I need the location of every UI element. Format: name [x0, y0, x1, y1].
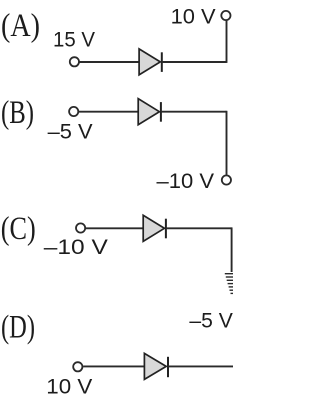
wire B anode [79, 111, 139, 113]
rail hatch -5V [225, 274, 233, 294]
diode D_A cathode bar [161, 52, 163, 72]
svg-text:–5 V: –5 V [48, 120, 94, 144]
wire C anode [86, 227, 144, 229]
svg-text:(B): (B) [1, 95, 34, 131]
wire B cathode [161, 111, 227, 113]
diode D_A triangle [139, 49, 160, 75]
diode D_D triangle [144, 353, 166, 379]
svg-text:–10 V: –10 V [157, 169, 215, 193]
diode D_B triangle [138, 99, 159, 125]
wire B vertical [226, 111, 228, 175]
wire A vertical [226, 21, 228, 63]
diode D_D cathode bar [167, 357, 169, 377]
diode D_C cathode bar [165, 219, 167, 239]
wire C vertical [231, 227, 233, 272]
svg-text:(D): (D) [1, 309, 35, 345]
terminal A input [70, 57, 79, 66]
svg-text:(A): (A) [1, 8, 40, 44]
terminal B -10V [222, 175, 231, 184]
svg-text:15 V: 15 V [53, 28, 96, 52]
diode D_B cathode bar [160, 102, 162, 122]
terminal A 10V [221, 11, 230, 20]
wire C cathode [166, 227, 232, 229]
svg-text:10 V: 10 V [171, 5, 217, 29]
svg-text:–10 V: –10 V [44, 235, 109, 259]
wire D cathode [168, 365, 233, 367]
svg-text:(C): (C) [1, 211, 36, 247]
terminal B input [69, 107, 78, 116]
terminal D input [73, 362, 82, 371]
svg-text:10 V: 10 V [46, 374, 93, 396]
wire A cathode [162, 61, 227, 63]
terminal C input [76, 223, 85, 232]
wire A anode [79, 61, 140, 63]
wire D anode [83, 365, 145, 367]
diode D_C triangle [143, 215, 164, 241]
svg-text:–5 V: –5 V [189, 309, 233, 333]
